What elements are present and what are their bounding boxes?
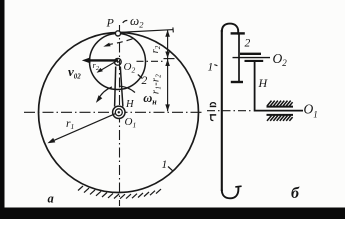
- svg-text:r2: r2: [93, 60, 100, 72]
- axle O2 line: [233, 57, 271, 59]
- svg-text:1: 1: [208, 62, 214, 74]
- axle O2 bearing bar: [240, 53, 261, 55]
- dimension line r2 / r1-r2: [167, 30, 169, 111]
- radius r1 arrow: [51, 114, 116, 142]
- gear 2 rotation dashed arc: [107, 39, 133, 45]
- svg-text:ω2: ω2: [130, 13, 144, 30]
- ring gear 1 line: [221, 30, 223, 191]
- horizontal axis centerline through O1: [24, 111, 203, 113]
- carrier H rod: [255, 62, 303, 111]
- svg-text:v02: v02: [68, 64, 81, 80]
- contact point P: [115, 31, 120, 36]
- bearing O1: [113, 106, 125, 118]
- dimension extension line at O2 level: [164, 58, 175, 60]
- horizontal centerline through O2 (right side): [137, 60, 165, 62]
- carrier link H body: [115, 67, 116, 107]
- bearing support upper (hatched): [267, 101, 294, 107]
- ground hatching under gear 1: [78, 186, 161, 199]
- velocity vector v_O2: [88, 59, 118, 61]
- svg-text:O1: O1: [125, 116, 137, 129]
- svg-text:2: 2: [142, 75, 148, 87]
- svg-text:r1: r1: [66, 118, 74, 131]
- svg-text:б: б: [291, 185, 300, 202]
- ring gear top hook: [222, 24, 238, 35]
- svg-text:r1-r2: r1-r2: [151, 74, 163, 94]
- svg-text:H: H: [258, 76, 269, 90]
- svg-text:а: а: [48, 192, 54, 206]
- centerline O1 (fig b): [207, 110, 253, 112]
- ring gear hub top mark: [210, 103, 215, 106]
- scan border left band: [0, 0, 5, 219]
- scan border bottom band: [0, 208, 345, 220]
- svg-text:O2: O2: [124, 61, 136, 74]
- gear 2 side view: [238, 34, 240, 82]
- svg-text:1: 1: [162, 159, 168, 171]
- carrier top cap: [245, 60, 264, 62]
- svg-text:O1: O1: [304, 102, 318, 120]
- svg-text:2: 2: [245, 38, 251, 50]
- svg-text:O2: O2: [273, 51, 288, 68]
- omega H rotation arc: [120, 86, 135, 92]
- gear 2 small circle: [90, 34, 146, 90]
- radius r2 arrow inside gear 2: [100, 61, 118, 72]
- ring gear hub bottom mark: [210, 114, 216, 116]
- svg-text:P: P: [106, 16, 115, 30]
- svg-text:H: H: [125, 99, 135, 110]
- omega2 rotation dash near P: [123, 20, 128, 22]
- svg-text:r2: r2: [150, 45, 162, 53]
- label 2 with leader: [138, 75, 143, 79]
- bearing support lower (hatched): [267, 115, 294, 121]
- ring gear bottom hook: [222, 186, 239, 198]
- gear 1 big circle: [39, 33, 199, 193]
- vertical axis centerline: [119, 25, 121, 206]
- dimension extension line at P level: [121, 30, 174, 33]
- pivot O2 hub: [114, 58, 121, 65]
